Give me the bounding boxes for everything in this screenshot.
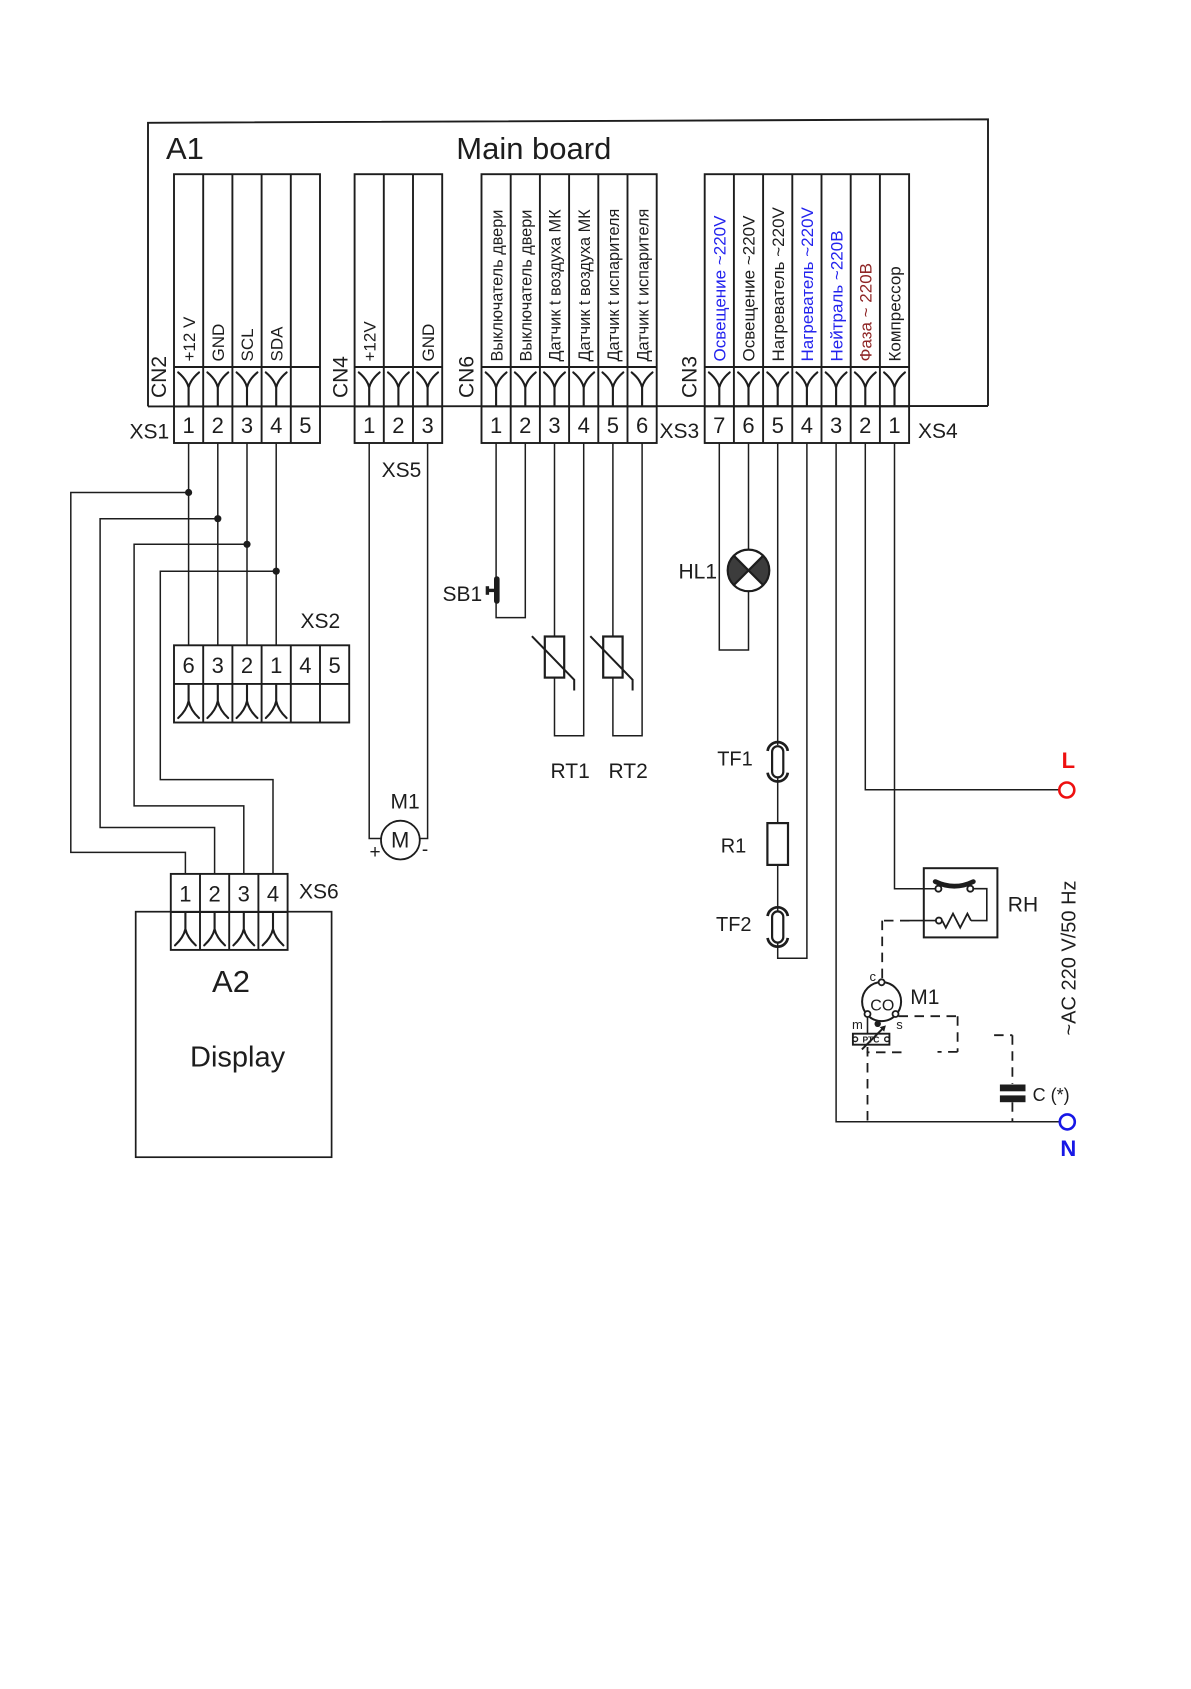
svg-text:R1: R1	[721, 836, 747, 858]
svg-text:M1: M1	[391, 791, 420, 814]
svg-text:C (*): C (*)	[1033, 1085, 1070, 1105]
wire RH to c (dashed)	[882, 921, 909, 979]
svg-text:5: 5	[328, 653, 340, 678]
svg-text:XS6: XS6	[299, 881, 339, 904]
wire capacitor top (dashed)	[994, 1035, 1012, 1084]
svg-text:3: 3	[241, 413, 253, 438]
svg-text:Display: Display	[190, 1042, 286, 1074]
svg-text:RH: RH	[1008, 894, 1038, 917]
svg-text:3: 3	[212, 653, 224, 678]
wire m to protector	[867, 1017, 869, 1034]
svg-text:4: 4	[270, 413, 282, 438]
svg-text:Датчик t испарителя: Датчик t испарителя	[605, 209, 623, 362]
svg-text:7: 7	[713, 413, 725, 438]
svg-text:2: 2	[208, 881, 220, 906]
svg-text:A1: A1	[166, 131, 204, 166]
wire HL1 to XS4-7	[719, 443, 748, 650]
svg-text:Датчик t воздуха МК: Датчик t воздуха МК	[547, 209, 565, 362]
svg-text:4: 4	[267, 881, 279, 906]
svg-text:GND: GND	[419, 324, 438, 362]
wire XS1-1 to XS2	[188, 443, 190, 645]
svg-text:XS2: XS2	[301, 610, 341, 633]
wire SB1 to XS3-2	[496, 443, 525, 618]
svg-text:Нагреватель ~220V: Нагреватель ~220V	[769, 206, 788, 361]
relay RH box	[924, 868, 998, 937]
thermistor RT1	[532, 636, 574, 690]
svg-text:Выключатель двери: Выключатель двери	[488, 210, 506, 362]
svg-text:4: 4	[299, 653, 311, 678]
wire RT2 to XS3-6	[613, 443, 642, 736]
svg-text:Фаза ~ 220В: Фаза ~ 220В	[857, 263, 876, 362]
svg-text:5: 5	[772, 413, 784, 438]
svg-text:CN4: CN4	[330, 356, 353, 398]
svg-text:6: 6	[742, 413, 754, 438]
svg-text:Main board: Main board	[456, 131, 611, 166]
svg-text:HL1: HL1	[679, 561, 718, 584]
svg-text:1: 1	[363, 413, 375, 438]
wire XS1-3 branch to XS6-3	[134, 544, 247, 874]
protector arrow	[862, 1025, 886, 1049]
svg-text:GND: GND	[209, 324, 228, 362]
connector CN6 with pins	[482, 174, 657, 443]
svg-text:M1: M1	[910, 986, 939, 1009]
svg-text:-: -	[422, 840, 428, 861]
wire XS1-1 branch to XS6-1	[71, 493, 189, 874]
junction node XS1-4	[273, 568, 280, 575]
socket XS2	[174, 645, 349, 722]
wire XS1-3 to XS2	[246, 443, 248, 645]
svg-text:1: 1	[888, 413, 900, 438]
wire XS3-5 to RT2	[612, 443, 614, 637]
wire XS3-1 to SB1	[495, 443, 497, 579]
starting protector (PTC)	[853, 1034, 890, 1045]
wire RT1 to XS3-4	[555, 443, 584, 736]
svg-text:Выключатель двери: Выключатель двери	[518, 210, 536, 362]
svg-text:Компрессор: Компрессор	[886, 266, 905, 361]
resistor R1	[767, 823, 788, 865]
thermal fuse TF1	[768, 742, 788, 781]
wire capacitor to neutral (dashed)	[1011, 1102, 1013, 1122]
board bottom edge	[148, 405, 988, 407]
svg-text:RT1: RT1	[551, 760, 590, 783]
svg-text:RT2: RT2	[609, 760, 648, 783]
svg-text:5: 5	[299, 413, 311, 438]
svg-text:3: 3	[830, 413, 842, 438]
wire protector to neutral (dashed)	[867, 1047, 869, 1122]
svg-text:XS4: XS4	[918, 420, 958, 443]
wire XS4-3 neutral to N	[836, 443, 1060, 1122]
RH output wire	[910, 920, 936, 922]
svg-text:2: 2	[392, 413, 404, 438]
svg-text:2: 2	[212, 413, 224, 438]
socket XS6	[171, 874, 288, 950]
svg-text:N: N	[1060, 1136, 1076, 1161]
junction node XS1-2	[214, 515, 221, 522]
svg-text:Освещение ~220V: Освещение ~220V	[740, 215, 759, 362]
svg-text:6: 6	[636, 413, 648, 438]
wire XS1-2 to XS2	[217, 443, 219, 645]
wire XS4-5 to TF1	[777, 443, 779, 745]
svg-text:Датчик t испарителя: Датчик t испарителя	[634, 209, 652, 362]
wire s branch (dashed)	[899, 1016, 958, 1052]
terminal L	[1059, 783, 1074, 798]
svg-text:1: 1	[490, 413, 502, 438]
svg-text:XS3: XS3	[660, 420, 700, 443]
wire TF1 to R1	[777, 777, 779, 823]
svg-text:Нейтраль ~220В: Нейтраль ~220В	[827, 230, 846, 361]
wire XS5-1 to M1 +	[369, 443, 381, 839]
svg-text:4: 4	[801, 413, 813, 438]
svg-text:M: M	[391, 827, 409, 852]
svg-text:SB1: SB1	[443, 583, 483, 606]
svg-text:c: c	[870, 969, 877, 984]
svg-text:s: s	[896, 1017, 903, 1032]
svg-text:~AC 220 V/50 Hz: ~AC 220 V/50 Hz	[1059, 880, 1081, 1035]
wire XS4-6 to HL1	[748, 443, 750, 550]
terminal m	[865, 1011, 871, 1017]
RH bimetal contact	[935, 882, 973, 892]
RH internal wire	[971, 889, 987, 921]
wire XS4-1 to RH	[895, 443, 936, 889]
RH output node	[936, 918, 942, 924]
motor M1 (display fan)	[381, 821, 420, 860]
RH heater resistor	[942, 914, 971, 928]
svg-text:4: 4	[578, 413, 590, 438]
svg-text:3: 3	[421, 413, 433, 438]
display unit A2 box	[136, 912, 332, 1157]
terminal c	[879, 979, 885, 985]
junction node XS1-1	[185, 489, 192, 496]
svg-text:+12V: +12V	[360, 321, 379, 362]
main board A1 outline	[148, 119, 988, 406]
junction node XS1-3	[243, 541, 250, 548]
svg-text:+: +	[369, 842, 380, 863]
lamp HL1	[728, 550, 770, 592]
svg-text:3: 3	[238, 881, 250, 906]
wire XS1-2 branch to XS6-2	[100, 519, 218, 874]
svg-text:A2: A2	[212, 964, 250, 999]
svg-text:Датчик t воздуха МК: Датчик t воздуха МК	[576, 209, 594, 362]
svg-text:Нагреватель ~220V: Нагреватель ~220V	[798, 206, 817, 361]
terminal s	[893, 1011, 899, 1017]
wire XS1-4 branch to XS6-4	[160, 571, 276, 874]
compressor motor M1 (CO)	[862, 982, 901, 1021]
wire TF2 to XS4-4	[778, 443, 807, 958]
wire XS4-2 phase to L	[865, 443, 1059, 790]
terminal N	[1060, 1114, 1075, 1129]
svg-text:CN6: CN6	[456, 356, 479, 398]
svg-text:CN3: CN3	[679, 356, 702, 398]
wire XS5-3 to M1 -	[420, 443, 428, 839]
svg-text:XS1: XS1	[130, 421, 170, 444]
svg-text:2: 2	[241, 653, 253, 678]
wire R1 to TF2	[777, 865, 779, 912]
wire XS1-4 to XS2	[275, 443, 277, 645]
svg-text:TF2: TF2	[716, 914, 752, 936]
svg-text:m: m	[852, 1017, 863, 1032]
thermal fuse TF2	[768, 907, 788, 946]
svg-text:CO: CO	[870, 998, 894, 1015]
push button SB1	[487, 579, 496, 601]
svg-text:SCL: SCL	[238, 328, 257, 361]
svg-text:XS5: XS5	[382, 459, 422, 482]
svg-text:3: 3	[548, 413, 560, 438]
svg-text:1: 1	[270, 653, 282, 678]
svg-text:1: 1	[182, 413, 194, 438]
capacitor C (*)	[1000, 1085, 1026, 1103]
wire XS3-3 to RT1	[554, 443, 556, 637]
wire protector branch (dashed)	[867, 1051, 902, 1053]
svg-text:TF1: TF1	[717, 748, 753, 770]
svg-text:2: 2	[519, 413, 531, 438]
svg-text:+12 V: +12 V	[180, 316, 199, 362]
connector CN3 with pins	[705, 174, 909, 443]
svg-text:L: L	[1062, 748, 1075, 773]
svg-text:CN2: CN2	[148, 356, 171, 398]
svg-text:SDA: SDA	[267, 326, 286, 362]
svg-text:Освещение ~220V: Освещение ~220V	[711, 215, 730, 362]
svg-text:1: 1	[179, 881, 191, 906]
thermistor RT2	[590, 636, 632, 690]
svg-text:2: 2	[859, 413, 871, 438]
svg-text:6: 6	[182, 653, 194, 678]
svg-text:5: 5	[607, 413, 619, 438]
connector CN4 with pins	[355, 174, 443, 443]
junction dot at motor	[875, 1021, 881, 1027]
connector CN2 with pins	[174, 174, 320, 443]
